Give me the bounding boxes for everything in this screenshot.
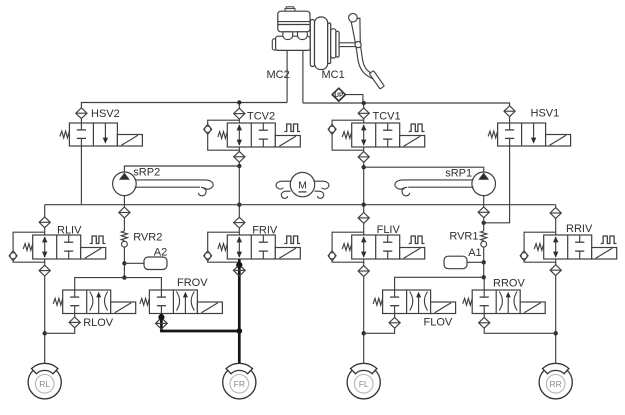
wire sRP1 inlet [364,167,484,172]
orifice sRP1 outlet [478,207,489,218]
label FRIV [252,225,278,237]
electric motor M [276,172,329,198]
solenoid valve FRIV [218,235,300,259]
solenoid valve TCV1 [342,123,425,147]
vacuum booster MC1 [310,17,339,70]
pump sRP2 [113,172,214,196]
wire RLOV drain [45,314,75,334]
solenoid valve FROV [140,290,223,314]
orifice below FRIV (bold) [233,265,245,276]
solenoid valve RLIV [23,235,106,259]
label HSV1 [531,108,560,120]
wire MC2 distribution [81,103,287,124]
orifice below RLOV [69,317,80,328]
svg-text:RR: RR [550,379,562,389]
node TCV1 pump branch [362,165,366,169]
svg-text:HSV2: HSV2 [91,108,120,120]
solenoid valve RLOV [53,290,136,314]
pump sRP1 [395,172,496,196]
wire TCV1 to FLIV column [363,147,365,235]
orifice below TCV1 [358,152,369,163]
label FROV [177,277,208,289]
node RVR1 outlet split [482,275,486,279]
svg-text:HSV1: HSV1 [531,108,560,120]
wire RRIV feed [555,205,557,235]
label sRP1 [445,168,472,180]
node MC2-TCV2 junction [237,100,241,104]
svg-text:RRIV: RRIV [566,223,593,235]
svg-text:RLOV: RLOV [83,317,114,329]
wheel RR [539,363,572,399]
label A1 [468,247,481,259]
label HSV2 [91,108,120,120]
svg-text:FLOV: FLOV [424,317,453,329]
wire RVR2 to accumulator node [123,247,125,278]
orifice below RRIV [550,265,561,276]
wire FRIV to FR wheel (bold) [238,259,241,366]
label MC2 [267,69,290,81]
label TCV1 [373,111,401,123]
brake pedal [349,13,385,89]
reservoir port cup 2 [298,32,308,40]
orifice above FLIV [358,213,369,224]
svg-text:MC1: MC1 [322,69,345,81]
svg-text:UP: UP [334,92,343,99]
svg-text:FLIV: FLIV [377,224,401,236]
wire RRIV to RR wheel [555,259,557,366]
wire FROV drain (bold) [161,314,239,332]
label A2 [154,246,167,258]
svg-text:TCV1: TCV1 [373,111,401,123]
node FRIV outlet (bold) [236,262,242,268]
node RR join [554,331,558,335]
orifice above HSV2 [76,108,87,119]
svg-text:RLIV: RLIV [57,225,82,237]
svg-text:sRP1: sRP1 [445,168,472,180]
accumulator A1 [444,256,467,269]
label TCV2 [247,111,275,123]
solenoid valve RROV [463,290,546,314]
wire RLOV-FROV feed [75,278,162,290]
wire RLIV to RL wheel [44,259,46,366]
svg-text:sRP2: sRP2 [133,167,160,179]
svg-text:FROV: FROV [177,277,208,289]
wire main suction line [45,204,556,206]
svg-text:RVR1: RVR1 [449,231,478,243]
orifice sRP2 outlet [119,207,130,218]
solenoid valve TCV2 [218,123,300,147]
orifice above TCV2 [234,108,245,119]
pressure sensor UP [332,88,345,101]
wire sRP2 outlet column [123,196,125,231]
orifice below RLIV [39,265,50,276]
wire FLOV feed [395,277,484,290]
wire FLIV to FL wheel [363,259,365,366]
label MC1 [322,69,345,81]
wire MC1 distribution [303,103,510,123]
orifice below FROV (bold) [156,318,168,329]
orifice above RRIV [550,208,561,219]
node FL join [362,331,366,335]
wire RROV feed [483,277,485,290]
node RVR2 outlet split [122,275,126,279]
svg-text:MC2: MC2 [267,69,290,81]
node FROV outlet (bold) [158,314,164,320]
node FR bold junction [236,328,242,334]
wire RLIV feed [44,205,46,235]
svg-text:FL: FL [359,379,369,389]
orifice below FLOV [389,317,400,328]
solenoid valve HSV2 [60,123,142,146]
wire MC1 output [302,50,304,104]
solenoid valve RRIV [534,235,617,259]
orifice below TCV2 [234,151,245,162]
label RVR2 [133,231,162,243]
wire UP sensor stub [345,95,363,103]
svg-text:FR: FR [234,379,245,389]
solenoid valve HSV1 [488,123,570,146]
svg-text:TCV2: TCV2 [247,111,275,123]
orifice above RLIV [39,217,50,228]
svg-text:RROV: RROV [493,277,525,289]
node FR main-line junction [237,203,241,207]
node FL main-line junction [362,203,366,207]
orifice above HSV1 [504,106,515,117]
node TCV2 pump branch [237,164,241,168]
label RROV [493,277,525,289]
wire A1 stub [467,261,484,263]
label RRIV [566,223,593,235]
wire HSV2 to suction line [80,146,82,205]
wire HSV1 down [484,146,510,223]
relief valve RVR2 [121,231,127,247]
relief valve RVR1 [481,231,487,247]
accumulator A2 [144,257,167,270]
svg-text:RL: RL [39,379,50,389]
label RLIV [57,225,82,237]
check valve bypass FRIV [204,232,240,262]
wire RVR1 to accumulator node [483,247,485,277]
wheel FL [347,363,380,399]
wheel RL [28,363,61,399]
check valve bypass TCV1 [328,120,364,150]
solenoid valve FLIV [342,235,425,259]
node A1 branch [482,260,486,264]
svg-text:A1: A1 [468,247,481,259]
wire TCV1 branch [363,103,365,123]
solenoid valve FLOV [373,290,456,314]
orifice below FLIV [358,266,369,277]
wheel FR [223,363,256,399]
wire RROV drain [484,314,556,334]
reservoir port cup 1 [283,32,293,40]
wire FLOV drain [364,314,395,334]
label FLOV [424,317,453,329]
label sRP2 [133,167,160,179]
label RLOV [83,317,114,329]
wire MC2 output [286,50,288,103]
svg-text:A2: A2 [154,246,167,258]
node A2 branch [122,261,126,265]
master cylinder body [272,36,310,50]
check valve bypass TCV2 [204,120,240,150]
orifice below RROV [479,317,490,328]
wire TCV2 to FRIV column [238,147,240,235]
node HSV1-RVR1 junction [482,221,486,225]
svg-text:FRIV: FRIV [252,225,278,237]
svg-text:M: M [298,179,307,191]
brake fluid reservoir [278,11,310,32]
wire TCV2 branch [238,103,240,124]
orifice above FRIV [234,217,245,228]
label FLIV [377,224,401,236]
wire sRP1 outlet column [483,196,485,231]
node RL join [43,331,47,335]
check valve bypass FLIV [328,232,364,262]
orifice above TCV1 [358,108,369,119]
svg-text:RVR2: RVR2 [133,231,162,243]
node MC1-TCV1 junction [362,101,366,105]
check valve bypass RLIV [9,232,45,262]
wire sRP2 inlet [124,166,239,172]
label RVR1 [449,231,478,243]
wire A2 stub [124,262,144,264]
reservoir cap [285,7,295,12]
booster push rod [339,43,356,47]
check valve bypass RRIV [520,232,556,262]
